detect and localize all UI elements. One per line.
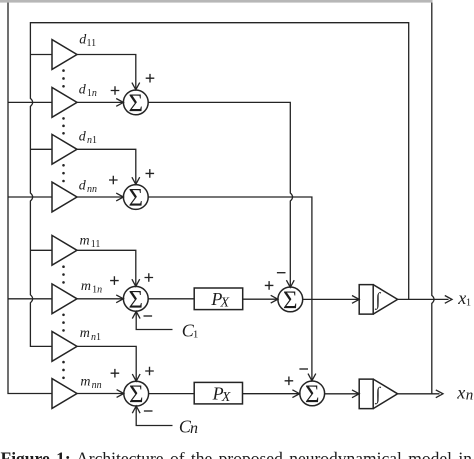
svg-text:Σ: Σ	[129, 90, 144, 117]
dotted ellipsis between m1n and mn1	[62, 314, 65, 332]
sign minus at S6 top	[299, 368, 308, 370]
sign plus at S6 left	[285, 377, 294, 386]
svg-text:∫: ∫	[375, 384, 382, 405]
wire block PX2 output to summer S6 left	[243, 393, 300, 395]
svg-text:d: d	[79, 83, 87, 98]
svg-text:m: m	[80, 326, 90, 341]
svg-text:m: m	[80, 375, 90, 390]
wire m11 output to summer S3 top	[77, 250, 136, 286]
wire left bus down to mnn input	[8, 1, 52, 394]
wire d11 output to summer S1 top	[77, 55, 136, 90]
svg-text:11: 11	[91, 239, 101, 250]
integrator I1 body	[359, 285, 373, 315]
summer S4 circle	[124, 381, 149, 406]
dotted ellipsis between dn1 and dnn	[62, 164, 65, 182]
amplifier m1n	[52, 284, 77, 314]
wire m1n output to summer S3 left	[77, 298, 123, 300]
wire summer S2 output to summer S6 top	[148, 197, 312, 381]
wire summer S1 output to summer S5 top	[148, 102, 292, 287]
wire Cn input to summer S4 bottom	[136, 406, 172, 425]
svg-text:∫: ∫	[375, 289, 382, 310]
svg-text:n: n	[466, 388, 474, 404]
summer S5 circle	[278, 287, 303, 312]
sign plus at S3 top	[145, 273, 154, 282]
summer S6 circle	[300, 381, 325, 406]
sign plus at S1 top	[146, 74, 155, 83]
svg-text:1: 1	[193, 329, 199, 341]
wire summer S3 output to block PX1	[148, 298, 194, 300]
sign plus at S5 left	[265, 281, 274, 290]
svg-text:X: X	[221, 390, 231, 405]
sign minus at S3 bottom	[144, 315, 153, 317]
wire summer S5 output to integrator I1	[303, 298, 359, 300]
dotted ellipsis between d11 and d1n	[62, 69, 65, 87]
wire dn1 output to summer S2 top	[77, 149, 136, 184]
wire mnn output to summer S4 left	[77, 393, 124, 395]
amplifier dn1	[52, 134, 77, 164]
svg-text:X: X	[220, 296, 230, 311]
wire summer S6 output to integrator I2	[325, 393, 359, 395]
svg-text:nn: nn	[87, 184, 97, 195]
sign minus at S5 top	[277, 272, 286, 274]
sign plus at S2 left	[109, 176, 118, 185]
sign plus at S3 left	[110, 276, 119, 285]
sign minus at S4 bottom	[144, 410, 153, 412]
integrator I2 body	[359, 379, 373, 409]
svg-text:n1: n1	[87, 135, 97, 146]
summer S3 circle	[123, 286, 148, 311]
amplifier mn1	[52, 332, 77, 362]
svg-text:Σ: Σ	[283, 287, 298, 314]
svg-text:Figure 1: Architecture of the: Figure 1: Architecture of the proposed n…	[1, 449, 474, 459]
wire branch second bus to dn1 input	[30, 148, 52, 150]
amplifier mnn	[52, 379, 77, 409]
wire branch left bus to dnn input	[8, 196, 52, 198]
sign plus at S4 top	[145, 367, 154, 376]
svg-text:1n: 1n	[87, 88, 97, 99]
page edge bar	[0, 0, 433, 3]
wire d1n output to summer S1 left	[77, 101, 123, 103]
svg-text:m: m	[81, 279, 91, 294]
svg-text:Σ: Σ	[129, 381, 144, 408]
amplifier d11	[52, 40, 77, 70]
sign plus at S4 left	[111, 369, 120, 378]
sign plus at S2 top	[146, 169, 155, 178]
wire inner feedback loop from x1 output up over top and down second bus	[30, 23, 408, 347]
dotted ellipsis between d1n and dn1	[62, 117, 65, 135]
dotted ellipsis between m11 and m1n	[62, 265, 65, 283]
amplifier m11	[52, 235, 77, 265]
svg-text:1: 1	[466, 298, 471, 309]
wire integrator I1 output to x1 with junction and crossover	[398, 298, 449, 300]
svg-text:m: m	[80, 234, 90, 249]
sign plus at S1 left	[111, 86, 120, 95]
wire block PX1 output to summer S5 left	[243, 298, 278, 300]
wire C1 input to summer S3 bottom	[136, 312, 172, 330]
wire branch second bus to d11 input	[30, 54, 52, 56]
summer S2 circle	[123, 185, 148, 210]
block PX2 box	[194, 382, 242, 404]
dotted ellipsis between mn1 and mnn	[62, 361, 65, 379]
svg-text:nn: nn	[92, 380, 102, 391]
svg-text:x: x	[456, 383, 465, 403]
svg-text:1n: 1n	[92, 285, 102, 296]
amplifier d1n	[52, 88, 77, 118]
svg-text:11: 11	[87, 38, 97, 49]
svg-text:d: d	[79, 129, 87, 144]
wire branch left bus to m1n input	[8, 298, 52, 300]
summer S1 circle	[123, 90, 148, 115]
wire branch second bus to m11 input	[30, 249, 52, 251]
svg-text:n1: n1	[91, 332, 101, 343]
wire branch left bus to d1n input	[8, 101, 52, 103]
svg-text:Σ: Σ	[129, 185, 144, 212]
amplifier dnn	[52, 182, 77, 212]
svg-text:n: n	[190, 420, 198, 437]
wire dnn output to summer S2 left	[77, 196, 123, 198]
svg-text:d: d	[79, 179, 87, 194]
svg-text:Σ: Σ	[305, 381, 320, 408]
wire integrator I2 output to xn	[398, 393, 440, 395]
svg-text:Σ: Σ	[129, 286, 144, 313]
wire outer feedback from xn output up to page top	[432, 1, 434, 394]
block PX1 box	[194, 288, 243, 310]
wire summer S4 output to block PX2	[148, 393, 194, 395]
wire mn1 output to summer S4 top	[77, 346, 136, 381]
